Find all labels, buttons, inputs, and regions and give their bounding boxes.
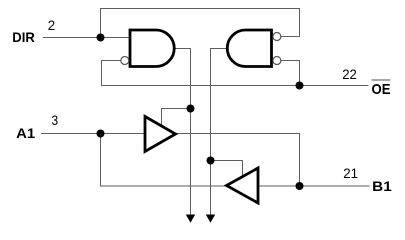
arrowhead left (186, 215, 195, 223)
wire U2 lower input horizontal (281, 60, 300, 62)
wire U1 output (174, 48, 191, 50)
and-gate U2 lower input bubble (273, 57, 281, 65)
wire bottom line (B buffer output / B1) (100, 185, 370, 187)
wire U1 lower input down to OE line (101, 61, 103, 86)
svg-text:A1: A1 (16, 125, 35, 141)
junction dot DIR node (97, 34, 105, 42)
OE overline (372, 79, 391, 81)
wire A1 node down to bottom line (100, 134, 102, 187)
junction dot OE node (296, 82, 304, 90)
wire OE line (101, 85, 369, 87)
svg-text:B1: B1 (372, 178, 392, 194)
wire U2 output vertical down to arrow (210, 49, 212, 215)
wire U1 output vertical down to arrow (190, 49, 192, 215)
wire A buffer output corner down to B1 line (299, 134, 301, 187)
wire buffer1 enable stub (161, 109, 163, 129)
buffer A-to-B triangle (145, 117, 176, 152)
wire top horizontal (DIR to U2 upper input) (100, 8, 300, 10)
wire down from top to U2 upper input bubble (299, 9, 301, 37)
junction dot B1 node (296, 182, 304, 190)
junction dot buffer1 enable (187, 105, 195, 113)
svg-text:21: 21 (343, 165, 358, 181)
wire DIR node up to top (100, 9, 102, 38)
junction dot buffer2 enable (207, 157, 215, 165)
buffer B-to-A triangle (227, 168, 259, 203)
wire buffer1 enable horizontal (161, 108, 191, 110)
svg-text:22: 22 (342, 66, 357, 82)
junction dot A1 node (97, 130, 105, 138)
and-gate U1 body (130, 30, 174, 67)
svg-text:DIR: DIR (12, 29, 35, 45)
svg-text:OE: OE (372, 81, 391, 98)
wire U2 output (210, 48, 228, 50)
wire DIR input line (43, 37, 131, 39)
and-gate U2 upper input bubble (273, 33, 281, 41)
and-gate U2 body (mirrored) (227, 30, 271, 67)
wire A1 input line through buffer to right corner (41, 133, 300, 135)
wire U2 lower input down to OE line (299, 61, 301, 86)
wire U2 upper input horizontal (281, 36, 300, 38)
svg-text:2: 2 (48, 17, 56, 33)
svg-text:3: 3 (52, 112, 59, 128)
wire buffer2 enable stub (242, 161, 244, 179)
arrowhead right (206, 215, 215, 223)
and-gate U1 input bubble (121, 57, 129, 65)
wire U1 lower input horizontal (101, 60, 121, 62)
wire buffer2 enable horizontal (210, 160, 243, 162)
